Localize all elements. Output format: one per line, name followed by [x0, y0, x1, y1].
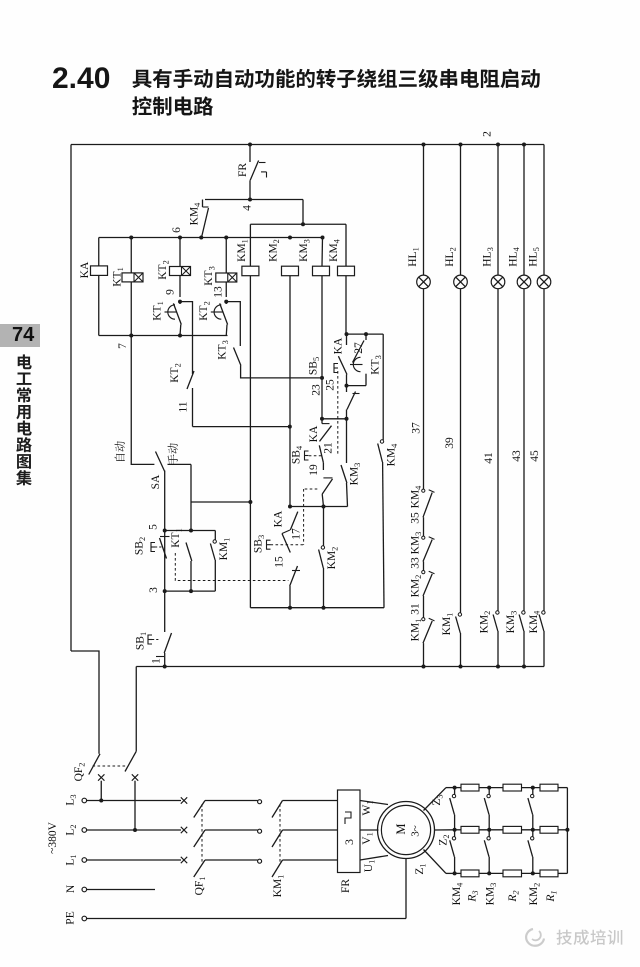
svg-text:KM3: KM3	[485, 883, 499, 906]
svg-text:L1: L1	[65, 854, 79, 865]
pushbutton SB1 NC	[148, 635, 152, 644]
contact KA 25	[346, 334, 348, 345]
svg-text:35: 35	[410, 512, 422, 524]
svg-text:L2: L2	[65, 824, 79, 835]
lamp HL3 branch contact KM2	[497, 289, 499, 611]
lamp HL2 branch contact KM1	[460, 289, 462, 613]
svg-text:HL3: HL3	[482, 247, 496, 267]
linkage dashed SB2	[175, 553, 288, 581]
svg-text:SA: SA	[150, 474, 162, 489]
jog rail 419	[322, 418, 347, 420]
neutral N row	[82, 887, 87, 892]
svg-text:45: 45	[529, 450, 541, 462]
contactor coil KM2	[282, 266, 299, 276]
node 3 rail	[165, 590, 216, 592]
svg-text:KM3: KM3	[298, 239, 312, 262]
timed contact KT3 27	[365, 334, 367, 340]
svg-text:KT3: KT3	[217, 340, 231, 360]
rail 1 bottom	[136, 666, 544, 668]
selector SA blade	[156, 452, 165, 472]
svg-text:KM2: KM2	[528, 883, 542, 906]
svg-text:31: 31	[410, 603, 422, 615]
svg-text:3: 3	[148, 587, 160, 593]
svg-text:Z1: Z1	[414, 863, 428, 874]
svg-text:KM3: KM3	[410, 532, 424, 555]
timer coil KT3	[225, 238, 227, 274]
svg-text:R1: R1	[545, 890, 559, 902]
node 13 jog wire	[226, 302, 240, 346]
svg-text:39: 39	[444, 437, 456, 449]
svg-text:KM3: KM3	[349, 463, 363, 486]
rail 7	[99, 335, 228, 337]
svg-text:17: 17	[291, 528, 303, 540]
svg-text:KM1: KM1	[410, 619, 424, 642]
resistor grid dots	[453, 786, 457, 790]
earth PE row	[82, 916, 87, 921]
svg-text:KM1: KM1	[236, 239, 250, 262]
contactor coil KM4	[338, 266, 355, 276]
wire KM4 coil feed	[345, 224, 347, 266]
svg-text:HL4: HL4	[508, 246, 522, 266]
watermark logo	[526, 929, 544, 946]
svg-text:W1: W1	[361, 800, 375, 815]
svg-text:KT2: KT2	[157, 260, 171, 280]
rail mid 506	[290, 506, 348, 508]
svg-text:KM2: KM2	[410, 575, 424, 598]
rail 11	[193, 426, 290, 428]
svg-text:SB1: SB1	[135, 632, 149, 650]
rotor Z3 wire	[424, 788, 447, 811]
linkage dashed SB5	[337, 371, 339, 456]
bus 6	[99, 237, 323, 239]
parallel box KA25 KT3 top rail	[347, 333, 384, 335]
svg-text:HL1: HL1	[407, 247, 421, 267]
contactor coil KM1	[242, 266, 259, 276]
watermark text	[557, 929, 623, 945]
svg-text:KM3: KM3	[505, 611, 519, 634]
wire SA common	[164, 471, 166, 633]
svg-text:3: 3	[342, 839, 356, 845]
svg-text:KM4: KM4	[451, 882, 465, 906]
svg-text:37: 37	[411, 422, 423, 434]
rail 608	[250, 607, 384, 609]
wire manual drop	[190, 464, 192, 530]
selector SA manual wire	[168, 463, 192, 465]
node 9	[178, 300, 182, 304]
parallel box bottom rail	[347, 385, 367, 387]
svg-text:2: 2	[482, 131, 494, 137]
svg-text:M: M	[394, 823, 408, 834]
phase L1 row	[82, 858, 87, 863]
svg-text:9: 9	[165, 289, 177, 295]
svg-text:R2: R2	[507, 890, 521, 902]
svg-text:KT3: KT3	[370, 355, 384, 375]
svg-text:SB3: SB3	[253, 535, 267, 553]
timed contact KT2	[214, 305, 221, 319]
thermal overload FR box	[338, 790, 361, 873]
lamp branch tops	[422, 143, 426, 147]
rotor Z1 wire	[424, 850, 447, 874]
breaker QF1 poles	[194, 801, 205, 818]
svg-text:5: 5	[148, 524, 160, 530]
svg-text:19: 19	[308, 464, 320, 476]
svg-text:11: 11	[178, 401, 190, 412]
svg-text:KT1: KT1	[170, 528, 184, 548]
svg-text:SB2: SB2	[134, 537, 148, 555]
contact KM1 NO hold	[214, 531, 216, 541]
contactor coil KM3	[321, 236, 325, 240]
contact KM4 NC	[202, 200, 204, 208]
svg-text:KT1: KT1	[112, 267, 126, 287]
title line 1	[132, 69, 539, 88]
svg-text:PE: PE	[65, 911, 77, 924]
svg-text:21: 21	[323, 442, 335, 454]
svg-text:KA: KA	[333, 337, 345, 354]
node 5 rail	[165, 530, 216, 532]
wire node4 drop	[302, 200, 304, 225]
svg-text:41: 41	[483, 452, 495, 464]
svg-text:KM1: KM1	[441, 613, 455, 636]
svg-text:KA: KA	[308, 425, 320, 442]
svg-text:1: 1	[151, 658, 163, 664]
series group KA21 SB4 19	[321, 419, 323, 424]
svg-text:4: 4	[242, 205, 254, 211]
svg-text:KM4: KM4	[410, 485, 424, 509]
node 13	[224, 300, 228, 304]
svg-text:6: 6	[171, 227, 183, 233]
svg-text:KT2: KT2	[169, 363, 183, 383]
contact KT2 NO	[187, 371, 194, 389]
svg-text:KM1: KM1	[272, 875, 286, 898]
linkage dashed SB4	[304, 488, 318, 490]
contact 15 linked	[292, 570, 300, 572]
node 11 wire	[192, 388, 194, 427]
svg-text:L3: L3	[65, 794, 79, 805]
contact KM4 NO right	[382, 334, 384, 440]
contactor KM1 main poles	[272, 801, 283, 818]
timed contact KT1	[168, 305, 175, 319]
pushbutton SB4 actuator	[305, 451, 309, 460]
sidebar book title	[18, 354, 32, 369]
svg-text:KM1: KM1	[218, 538, 232, 561]
resistor grid right bus	[566, 788, 568, 874]
svg-text:~380V: ~380V	[47, 821, 59, 853]
contact KT3 NO	[234, 348, 241, 366]
selector SA auto wire	[131, 336, 154, 465]
svg-text:SB5: SB5	[308, 357, 322, 375]
svg-text:23: 23	[311, 384, 323, 396]
svg-text:3~: 3~	[410, 825, 422, 837]
wire left border	[70, 145, 72, 652]
svg-text:KT2: KT2	[198, 301, 212, 321]
svg-text:KA: KA	[273, 510, 285, 527]
svg-text:33: 33	[410, 557, 422, 569]
svg-text:13: 13	[213, 286, 225, 298]
timer coil KT2	[179, 238, 181, 267]
contact KM2 NO	[323, 507, 325, 547]
svg-text:KM4: KM4	[528, 610, 542, 634]
wire top rail 2	[71, 144, 544, 146]
svg-text:Z3: Z3	[431, 794, 445, 805]
svg-text:HL5: HL5	[528, 247, 542, 267]
svg-text:HL2: HL2	[444, 247, 458, 267]
phase L3 row	[82, 798, 87, 803]
svg-text:27: 27	[353, 342, 365, 354]
svg-text:SB4: SB4	[291, 445, 305, 464]
pushbutton SB5 NO	[334, 364, 338, 373]
lamp HL4 branch contact KM3	[523, 289, 525, 611]
svg-text:KM2: KM2	[479, 611, 493, 634]
svg-text:R3: R3	[467, 890, 481, 902]
rail A coils feed	[250, 223, 346, 225]
svg-text:KM2: KM2	[326, 547, 340, 570]
svg-text:43: 43	[511, 450, 523, 462]
svg-text:QF2: QF2	[73, 763, 87, 782]
phase L2 row	[82, 828, 87, 833]
rotor Z2 wire	[435, 829, 455, 831]
wire FR to motor	[360, 801, 388, 805]
contact KM3 NO	[346, 419, 348, 463]
svg-text:KM4: KM4	[189, 202, 203, 226]
svg-text:25: 25	[325, 379, 337, 391]
thermal contact FR	[249, 145, 251, 163]
wire motor to PE	[405, 859, 407, 919]
lamp HL5 branch contact KM4	[543, 289, 545, 611]
node 4 rail	[205, 199, 303, 201]
svg-text:15: 15	[274, 556, 286, 568]
contact KA 17	[288, 505, 292, 509]
svg-text:FR: FR	[237, 163, 249, 177]
svg-text:KT1: KT1	[152, 301, 166, 321]
node 23	[320, 376, 324, 380]
svg-text:KM4: KM4	[328, 238, 342, 262]
pushbutton SB2 NC	[151, 543, 155, 552]
node 9 jog wire	[180, 302, 193, 374]
motor M	[378, 802, 435, 859]
svg-text:N: N	[65, 884, 77, 893]
wire border jog	[71, 651, 99, 754]
svg-text:KM4: KM4	[386, 443, 400, 467]
breaker QF2	[89, 754, 100, 775]
svg-text:QF1: QF1	[194, 877, 208, 896]
contact 19 linked	[323, 477, 332, 479]
svg-text:V1: V1	[361, 832, 375, 844]
resistor grid rows	[455, 787, 461, 789]
svg-text:KA: KA	[79, 261, 91, 278]
wire KM1 coil feed	[249, 224, 251, 266]
svg-text:Z2: Z2	[438, 834, 452, 845]
wire y502 link	[191, 501, 250, 503]
pushbutton SB3 NO	[267, 540, 271, 549]
title line 2	[132, 96, 213, 115]
relay coil KA	[98, 238, 100, 267]
svg-text:KT3: KT3	[203, 266, 217, 286]
wire rail1 to QF2	[135, 667, 137, 752]
contacts KM rotor shorting	[454, 788, 456, 795]
svg-text:KM2: KM2	[268, 239, 282, 262]
timer coil KT1	[130, 238, 132, 273]
svg-text:FR: FR	[340, 879, 352, 893]
contact KT1 NO hold	[186, 543, 192, 562]
svg-text:7: 7	[117, 343, 129, 349]
lamp HL1 chain	[423, 289, 425, 489]
svg-text:U1: U1	[363, 860, 377, 872]
